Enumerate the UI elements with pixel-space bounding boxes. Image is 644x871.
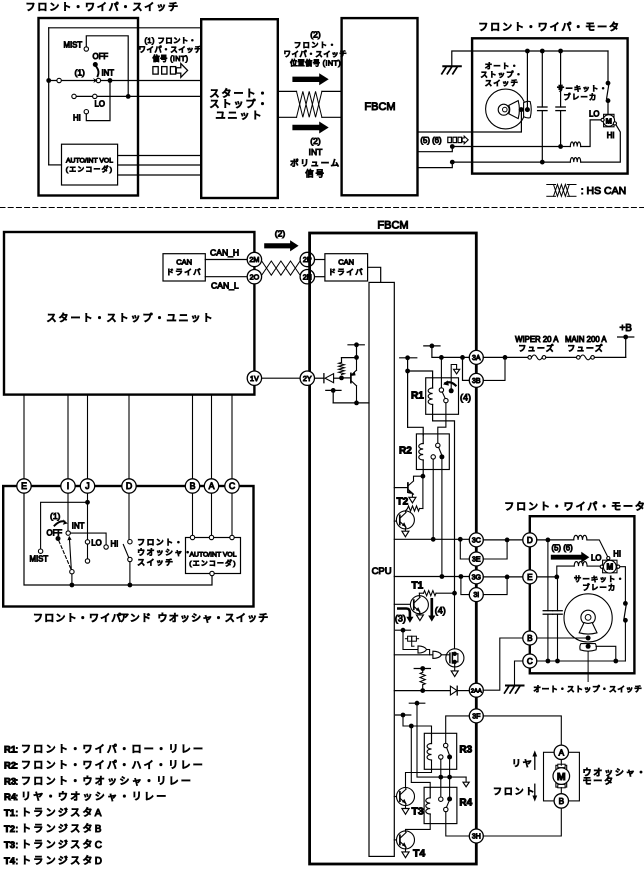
svg-text::: : [16, 792, 19, 803]
terminal D [122, 479, 136, 493]
signal symbol: three squares and open arrow [153, 67, 158, 75]
stub B with node (washer coil feed) [396, 714, 411, 716]
relay R3 lever [447, 747, 450, 754]
svg-text:ストップ・: ストップ・ [210, 98, 270, 110]
contact LO [93, 94, 97, 98]
svg-text:MAIN 200 A: MAIN 200 A [565, 335, 607, 344]
wire: 3A supply wire [432, 346, 469, 358]
relay R1 coil [432, 379, 434, 388]
contact MIST (lower) [38, 549, 42, 553]
svg-text:CAN: CAN [338, 258, 354, 267]
stub with node (2Y collector) [348, 344, 364, 346]
svg-text:フロント・ワイパ: フロント・ワイパ [33, 613, 122, 625]
pin 1V [247, 371, 261, 385]
fuse WIPER 20A [528, 356, 532, 360]
wire: I drop to INT contact [67, 493, 69, 531]
wiper motor M (top): body [603, 115, 615, 127]
contact washer lower [128, 557, 132, 561]
node on top bus at auto-stop [525, 49, 530, 54]
washer motor frame [544, 752, 580, 801]
wire 1V to 2Y [262, 377, 300, 379]
pin 2O [247, 270, 261, 284]
svg-text:オート・ストップ・スイッチ: オート・ストップ・スイッチ [533, 685, 642, 694]
T1 emitter ground marker [419, 614, 421, 615]
svg-text:フューズ: フューズ [518, 343, 555, 353]
pin 2Y [300, 371, 314, 385]
svg-text:フロント・ワイパ・モータ: フロント・ワイパ・モータ [504, 501, 644, 513]
wire: inner-left vertical bus [48, 28, 50, 165]
CAN driver box (FBCM side) [325, 254, 368, 281]
wire: branch to R4 coil [411, 726, 430, 788]
svg-text:ブレーカ: ブレーカ [583, 583, 617, 592]
svg-text:M: M [606, 116, 612, 125]
svg-text:B: B [190, 481, 196, 491]
wire: 3E outer tie [483, 540, 507, 559]
svg-text:(エンコーダ): (エンコーダ) [189, 558, 237, 567]
wire: MIST over-route to LO wire [86, 36, 128, 97]
node: OFF dot (lower) [56, 536, 61, 541]
svg-text::: : [16, 760, 19, 771]
capacitor C2 (lower motor) [557, 577, 559, 611]
relay R1 NC contact [444, 398, 448, 402]
svg-text:: HS CAN: : HS CAN [581, 185, 627, 197]
washer motor M body [556, 765, 567, 787]
wire: 2AA to B [483, 638, 523, 690]
svg-text:3F: 3F [472, 713, 480, 720]
wire A to encoder [211, 493, 213, 535]
wire: 3C wire [394, 538, 469, 540]
stub rail 2 with node [424, 345, 440, 347]
svg-text:1V: 1V [250, 374, 259, 383]
relay R1 pole contact [439, 388, 443, 392]
node: relay R4 NO contact [447, 797, 452, 802]
svg-text::: : [16, 824, 19, 835]
wire C to encoder [231, 493, 233, 535]
svg-text:LO: LO [591, 554, 601, 563]
svg-text:(4): (4) [435, 606, 446, 616]
node: relay R2 NO contact [439, 454, 444, 459]
wire: 3F to washer A [483, 716, 561, 745]
svg-text:フロント・ワイパ・スイッチ: フロント・ワイパ・スイッチ [26, 2, 181, 14]
node: auto-stop tab right contact [525, 107, 530, 112]
svg-text:ドライバ: ドライバ [328, 268, 364, 277]
wire: stub B to R3 coil [403, 715, 432, 734]
node: J junction [85, 500, 90, 505]
svg-text:スイッチ: スイッチ [485, 79, 519, 88]
svg-text:フロント・ワイパ・ロー・リレー: フロント・ワイパ・ロー・リレー [21, 744, 205, 756]
svg-text:A: A [209, 481, 215, 491]
svg-text:T3: T3 [412, 806, 424, 818]
svg-text:2M: 2M [249, 255, 259, 264]
node: 3A/3B outer tie [503, 355, 508, 360]
contact on LO wire left [72, 94, 76, 98]
svg-text:C: C [527, 657, 533, 666]
node [354, 355, 359, 360]
stub A with node (washer relay rail) [409, 702, 425, 704]
svg-text:T4: T4 [413, 848, 425, 860]
wire: encoder output 2 [118, 164, 202, 166]
HS CAN legend symbol [547, 184, 556, 186]
wire: 3G wire [394, 576, 469, 578]
circuit breaker (lower) [623, 601, 628, 606]
relay R4 coil [429, 788, 431, 798]
buffer gate 2 [433, 651, 442, 658]
resistor 2Y base-emitter [341, 358, 343, 363]
svg-text:(1) フロント・: (1) フロント・ [144, 36, 196, 45]
front wiper motor box (lower) [530, 516, 635, 673]
twisted pair wires start-stop to FBCM [278, 90, 297, 92]
wire: unit to terminal B [192, 395, 194, 479]
node C bus auto-stop [613, 659, 618, 664]
wire: motor to circuit breaker (lower) [618, 567, 625, 602]
svg-text:ワイパ・スイッチ: ワイパ・スイッチ [139, 45, 203, 54]
node: junction on INT wire at left bus [46, 78, 51, 83]
svg-text:ドライバ: ドライバ [166, 268, 202, 277]
relay R4 pole contact [444, 807, 448, 811]
svg-text:ユニット: ユニット [216, 111, 264, 122]
capacitor C2 (top motor) [560, 51, 562, 107]
resistor to 2AA wire [422, 669, 424, 673]
wire: R1 pole feed drop [440, 357, 442, 387]
relay R3 pole contact [444, 743, 448, 747]
wire 2P to CAN driver [315, 259, 325, 261]
svg-text:3E: 3E [472, 557, 481, 564]
svg-text:2Y: 2Y [303, 374, 312, 383]
svg-text:B: B [559, 797, 565, 806]
relay R1 actuate arrow [445, 382, 455, 385]
ground (lower section) [506, 685, 524, 687]
lever washer switch [123, 545, 128, 558]
svg-text:(2): (2) [310, 30, 321, 40]
svg-text:J: J [85, 481, 89, 491]
wiper motor M (lower): body [603, 560, 616, 573]
svg-text:3G: 3G [472, 574, 481, 581]
wire: R2 NC to 3C wire [432, 459, 434, 539]
svg-text:3C: 3C [472, 537, 481, 544]
wire: E to LO coil [537, 576, 557, 578]
svg-text:+B: +B [619, 323, 632, 334]
pin 3B [469, 373, 483, 387]
stub with node (2Y emitter return) [326, 389, 341, 391]
svg-text:(1): (1) [50, 511, 61, 521]
wiper motor M (top): frame [604, 114, 614, 127]
node: auto-stop tab left contact [519, 107, 524, 112]
terminal J [80, 479, 94, 493]
wire: resistor top to transistor top node [342, 357, 357, 359]
auto-stop switch (lower): contact tab [580, 644, 597, 652]
svg-text:R2: R2 [399, 446, 412, 457]
svg-text:OFF: OFF [47, 529, 63, 538]
svg-text:CAN: CAN [176, 258, 192, 267]
MOSFET Q5 (circled) [446, 649, 464, 667]
svg-text:(5) (6): (5) (6) [552, 544, 574, 553]
svg-text::: : [16, 745, 19, 756]
svg-text:CAN_L: CAN_L [211, 281, 239, 291]
svg-text::: : [16, 808, 19, 819]
wire CAN driver to CPU [368, 267, 381, 282]
buffer gate 1 [418, 646, 427, 653]
svg-text::: : [16, 776, 19, 787]
svg-text:E: E [527, 573, 533, 582]
wire: HI feed from FBCM (top) [418, 162, 571, 168]
transistor T3 (circled) [394, 796, 400, 798]
wire: CPU to gate 2 [394, 654, 433, 656]
node C bus cap2 [555, 659, 560, 664]
contact INT [96, 78, 100, 82]
svg-text:3A: 3A [472, 355, 481, 362]
transistor T1 (circled) [394, 603, 413, 605]
FBCM box (lower) [310, 233, 477, 864]
wire: 3E inner tie [460, 539, 469, 559]
svg-text:OFF: OFF [93, 52, 109, 61]
wire: LO feed from FBCM (top) [418, 147, 561, 152]
svg-text:3B: 3B [472, 378, 481, 385]
wire: 3I outer tie [483, 577, 507, 595]
svg-text:T1: T1 [4, 808, 16, 819]
svg-text:信号 (INT): 信号 (INT) [153, 54, 189, 63]
signal arrow (2) position signal [292, 73, 328, 85]
inductor on LO wire (top) [561, 146, 571, 148]
svg-text:M: M [606, 563, 613, 572]
terminal C [225, 479, 239, 493]
auto-stop switch (lower): hub [581, 610, 595, 624]
terminal E [17, 479, 31, 493]
relay R4 lever [446, 801, 449, 807]
MOSFET source ground marker [454, 667, 456, 671]
svg-text:HI: HI [73, 114, 81, 123]
front wiper switch box (top) [39, 18, 139, 196]
pin 3F [469, 709, 483, 723]
node: relay R1 NO contact [449, 388, 454, 393]
node on D wire [546, 538, 551, 543]
wire: R3 NC down to rail and R4 NC [440, 759, 442, 797]
terminal B [185, 479, 199, 493]
svg-text:ウオッシャ・スイッチ: ウオッシャ・スイッチ [158, 613, 270, 625]
contact: motor right terminal [617, 565, 620, 568]
stub with node (2AA pull resistor) [414, 668, 430, 670]
contact pole2 (lower) [85, 559, 89, 563]
wire: fuse to +B [625, 337, 627, 357]
node on top bus at capacitor 2 [558, 49, 563, 54]
front wiper motor box (top) [472, 38, 627, 173]
inductor on D wire (lower) [574, 535, 587, 540]
contact INT (lower switch) [66, 531, 70, 535]
pin 2M [247, 252, 261, 266]
wire: R3 NO down to rail and R4 NO [449, 759, 451, 799]
pin 3A [469, 350, 483, 364]
node: rail at R3 NO [447, 775, 452, 780]
auto-stop label pointer [587, 652, 589, 682]
wire CAN_L (unit) [205, 276, 247, 278]
svg-text:T2: T2 [4, 824, 15, 835]
contact on INT wire [57, 78, 61, 82]
terminal A (washer) [554, 745, 568, 759]
relay R3 box [424, 733, 456, 769]
fuse MAIN 200A [577, 356, 581, 360]
wire CAN_H (unit) [205, 259, 247, 261]
svg-text:INT: INT [309, 147, 323, 157]
terminal D (motor) [523, 533, 537, 547]
svg-text:トランジスタB: トランジスタB [21, 823, 104, 835]
contact: motor HI terminal (top) [613, 122, 616, 125]
wire: 3B inner tie [463, 357, 470, 380]
relay R3 NC contact [439, 755, 443, 759]
node: R2 coil to T2 [421, 474, 426, 479]
wire: D to HI coil [537, 539, 574, 541]
svg-text:(1): (1) [75, 68, 86, 78]
svg-text:2O: 2O [250, 272, 260, 281]
node: 3I inner tie [459, 574, 464, 579]
svg-text:(3): (3) [395, 613, 406, 623]
crystal symbol [405, 638, 407, 640]
svg-text:MIST: MIST [64, 41, 83, 50]
svg-text:R3: R3 [4, 776, 16, 787]
wire 2N to CAN driver [315, 276, 325, 278]
FBCM box (top) [342, 18, 418, 195]
lever arrow to INT [70, 540, 72, 570]
contact washer switch [128, 540, 132, 544]
wire: MIST over-route to J (lower) [41, 502, 88, 549]
relay R2 coil [422, 435, 424, 444]
svg-text:トランジスタC: トランジスタC [21, 839, 104, 851]
pin 3H [469, 829, 483, 843]
node: bus junction at I lever [70, 583, 75, 588]
wire: unit to terminal J [87, 395, 89, 479]
node: R1 pole feed [439, 355, 444, 360]
terminal E (motor) [523, 570, 537, 584]
node: T1 resistor to R1 coil vertical [452, 591, 457, 596]
auto-stop switch (top): cam circle [486, 89, 526, 129]
svg-text:アンド: アンド [119, 614, 152, 625]
svg-text:C: C [229, 481, 236, 491]
svg-text:フロント: フロント [493, 786, 536, 796]
auto-stop switch (top): contact tab [524, 101, 532, 118]
diode to 2AA (cathode right) [450, 686, 457, 695]
node on 2AA wire [420, 688, 425, 693]
wire: C to ground [515, 661, 523, 685]
contact encoder common [210, 571, 214, 575]
wire: D drop to washer contact [128, 493, 130, 539]
svg-text::: : [16, 856, 19, 867]
node: relay R3 NO contact [447, 755, 452, 760]
pin 2P [300, 252, 314, 266]
svg-text:MIST: MIST [30, 555, 49, 564]
svg-text:LO: LO [91, 538, 101, 547]
arrow (3) at T1 [398, 609, 410, 617]
svg-text:フロント・ウオッシャ・リレー: フロント・ウオッシャ・リレー [21, 775, 193, 787]
AUTO/INT VOL encoder box (lower) [186, 538, 241, 574]
transistor Q2b (circled) [394, 520, 400, 522]
arrow front (down) [534, 784, 536, 796]
svg-text:スタート・ストップ・ユニット: スタート・ストップ・ユニット [47, 313, 215, 325]
svg-text:モータ: モータ [583, 776, 615, 786]
svg-text:A: A [559, 748, 565, 757]
svg-text:HI: HI [613, 550, 621, 559]
svg-text:M: M [557, 771, 566, 783]
svg-text:CPU: CPU [372, 566, 392, 577]
node on E wire [554, 575, 559, 580]
transistor T4 (circled) [394, 839, 400, 841]
wire: unit to terminal D [128, 395, 130, 479]
contact encoder B [190, 535, 194, 539]
svg-text:AUTO/INT VOL: AUTO/INT VOL [66, 157, 113, 164]
svg-text:HI: HI [111, 540, 119, 549]
wire: E drop to bus [24, 493, 212, 585]
svg-text:AUTO/INT VOL: AUTO/INT VOL [190, 551, 237, 558]
wire: stub A to relay contact rail [417, 703, 466, 777]
capacitor C1 (top motor) [541, 51, 543, 107]
svg-text:(2): (2) [310, 136, 321, 146]
start-stop unit box (top) [201, 19, 278, 198]
wire: J drop to LO contact [87, 493, 89, 540]
svg-text:R4: R4 [459, 798, 472, 809]
inductor on HI wire (top) [570, 158, 580, 163]
wire: INT signal wire [49, 80, 202, 82]
svg-text:トランジスタA: トランジスタA [21, 807, 104, 819]
svg-text:CAN_H: CAN_H [210, 247, 239, 257]
wire: 3C to D [483, 539, 523, 541]
relay R2 NC contact [431, 455, 435, 459]
node: 3G/3I outer tie [505, 575, 510, 580]
node +B [623, 335, 628, 340]
svg-text:フロント・: フロント・ [294, 41, 337, 50]
CAN driver box (unit side) [163, 254, 205, 281]
svg-text:ウオッシャ・: ウオッシャ・ [137, 548, 193, 557]
relay R2 pole contact [436, 443, 440, 447]
svg-text:I: I [67, 481, 69, 491]
circuit breaker (top motor) [607, 51, 609, 81]
lever arrow OFF-INT (lower) [55, 521, 65, 525]
svg-text:INT: INT [102, 69, 115, 78]
relay R1 lever [442, 392, 445, 399]
wire: R4 pole to 3H [446, 812, 470, 836]
svg-text:R1: R1 [411, 391, 424, 402]
node: R2-NO on 3G wire [440, 574, 445, 579]
node on top bus at capacitor 1 [540, 49, 545, 54]
svg-text:リヤ: リヤ [512, 758, 534, 768]
wire: C bus [537, 660, 626, 662]
svg-text:FBCM: FBCM [377, 220, 408, 232]
svg-text:トランジスタD: トランジスタD [21, 855, 104, 867]
node: 3E inner tie [458, 537, 463, 542]
svg-text:フロント・ワイパ・モータ: フロント・ワイパ・モータ [478, 22, 621, 34]
svg-text:3H: 3H [472, 834, 481, 841]
contact MIST [84, 47, 88, 51]
wire: 3A to fuses [483, 356, 529, 358]
svg-text:R2: R2 [4, 760, 16, 771]
switch lever arrow OFF to INT [96, 67, 98, 76]
contact: motor LO terminal (lower) [600, 565, 603, 568]
terminal B (motor) [523, 631, 537, 645]
wire: HI route to INT junction [86, 81, 110, 121]
wire: emitter wire to CPU [333, 402, 369, 404]
svg-text:T3: T3 [4, 840, 15, 851]
wire B to encoder [192, 493, 194, 535]
arrow (5)(6) lower [551, 552, 590, 563]
CPU box [369, 282, 394, 856]
ground (top section) [452, 51, 528, 66]
wire: CPU to 2AA [394, 690, 450, 692]
terminal A [204, 479, 218, 493]
wire: R1 NC to R2 pole [438, 403, 446, 443]
wire: B to auto-stop contact [537, 637, 586, 639]
svg-text:3I: 3I [473, 592, 479, 599]
svg-text:スタート・: スタート・ [210, 88, 270, 100]
signal arrow (2) INT volume signal [292, 122, 328, 134]
dashed lever from OFF [59, 541, 71, 569]
svg-text:INT: INT [72, 522, 85, 531]
capacitor C1 (lower motor) [547, 540, 549, 611]
